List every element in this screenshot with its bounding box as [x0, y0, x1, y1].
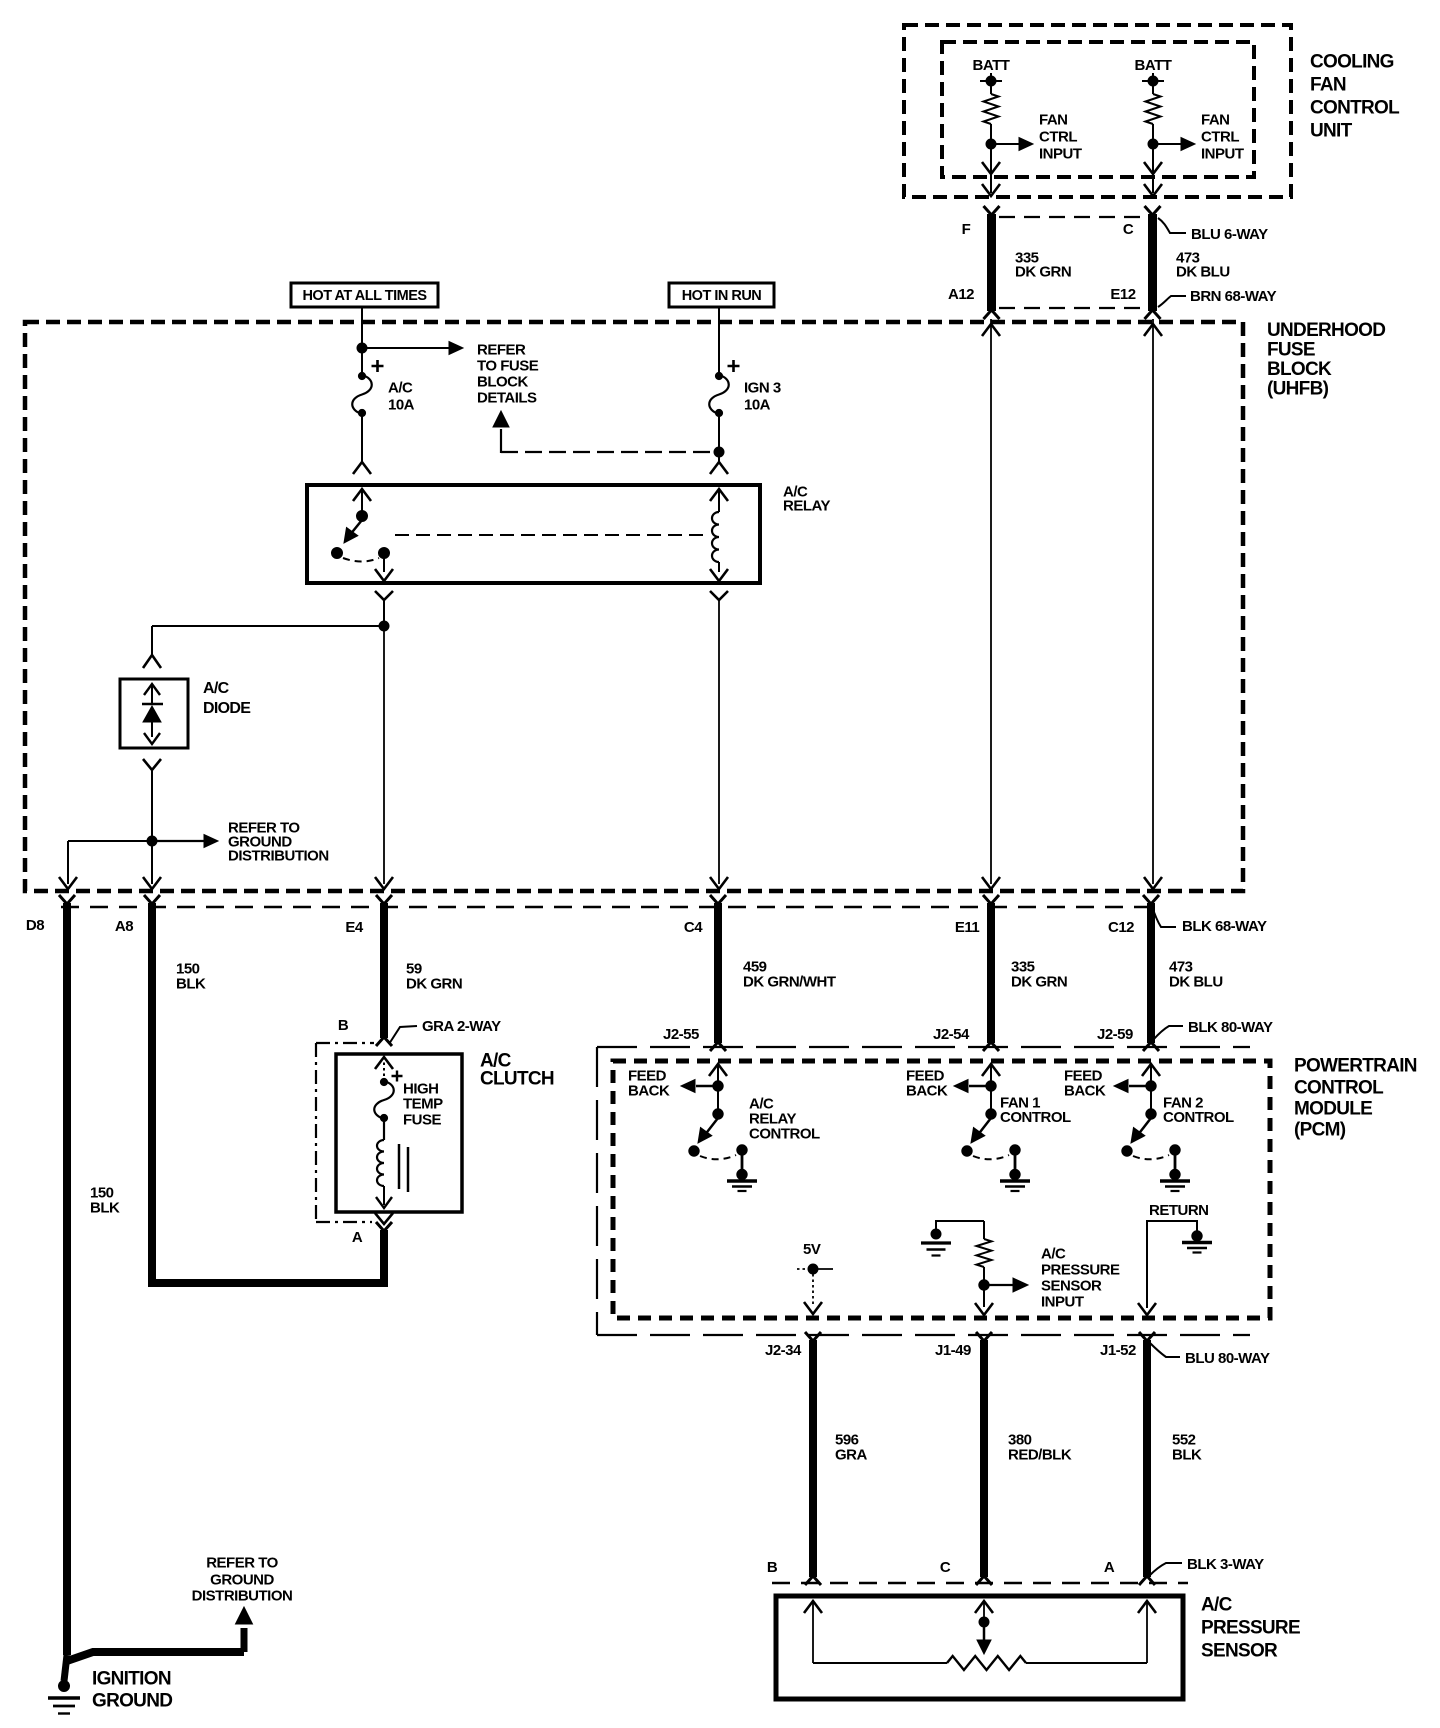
svg-text:C: C [940, 1559, 951, 1576]
wire relay coil out to C4 [718, 600, 720, 884]
5V arrow into J2-34 [804, 1302, 822, 1314]
plus mark high temp fuse [392, 1071, 403, 1082]
fan 1 control switch ground [1010, 1169, 1020, 1179]
A/C relay control switch contact dot right [737, 1145, 747, 1155]
diode output arrow [144, 733, 160, 744]
fan 2 control switch switch wire [1150, 1090, 1152, 1114]
arrowhead pressure input [1013, 1278, 1028, 1292]
svg-text:C4: C4 [684, 919, 703, 936]
connector chevron inner BATT node 1 [982, 162, 1000, 174]
node dot tap BATT node 1 [986, 139, 996, 149]
svg-text:BLK 80-WAY: BLK 80-WAY [1188, 1019, 1273, 1036]
svg-text:BLOCK: BLOCK [1267, 359, 1332, 380]
wire tap down BATT node 1 [990, 149, 992, 193]
svg-text:D8: D8 [26, 917, 44, 934]
cooling fan control unit inner dashed box [942, 42, 1254, 177]
svg-text:DISTRIBUTION: DISTRIBUTION [228, 848, 329, 865]
svg-text:A/C: A/C [388, 380, 413, 397]
wire to refer-ground arrow [157, 840, 205, 842]
fuse A/C 10A [352, 375, 372, 414]
wire D8 elbow to ground arrow [67, 1652, 244, 1661]
wire fuse to relay connector [361, 414, 363, 462]
fan 2 control switch switch common dot [1146, 1109, 1156, 1119]
arrow into C4 [710, 877, 728, 889]
svg-text:RED/BLK: RED/BLK [1008, 1447, 1072, 1464]
fan 1 control switch contact dot left [962, 1146, 972, 1156]
high temp fuse box [336, 1054, 462, 1212]
connector chevron inner BATT node 2 [1144, 162, 1162, 174]
connector below relay (switch out) [375, 591, 393, 600]
svg-text:BLK: BLK [90, 1200, 120, 1217]
fuse IGN 3 10A [709, 375, 729, 414]
svg-text:FUSE: FUSE [1267, 339, 1315, 360]
svg-text:IGNITION: IGNITION [92, 1668, 171, 1689]
wire relay out to junction [383, 600, 385, 631]
svg-text:UNDERHOOD: UNDERHOOD [1267, 320, 1385, 341]
return ground [1192, 1231, 1202, 1241]
wire to refer-to-fuse-block arrow [362, 347, 450, 349]
ignition ground symbol [59, 1681, 70, 1692]
sensor potentiometer R [947, 1656, 1026, 1670]
svg-text:C12: C12 [1108, 919, 1134, 936]
svg-text:REFER: REFER [477, 342, 526, 359]
PCM inner dashed box [613, 1061, 1270, 1318]
5V node dot [808, 1264, 818, 1274]
cooling fan control unit outer dashed box [904, 25, 1291, 197]
wire fuse to relay connector (IGN) [718, 414, 720, 462]
fan 1 control switch contact dot right [1010, 1145, 1020, 1155]
clutch coil L1 [377, 1140, 384, 1186]
A/C diode box [120, 679, 188, 748]
wire pressure input down [983, 1291, 985, 1307]
svg-text:BLK: BLK [1172, 1447, 1202, 1464]
svg-text:E4: E4 [345, 919, 364, 936]
A/C relay control switch switch common dot [713, 1109, 723, 1119]
connector chevron outer BATT node 1 [982, 184, 1000, 196]
svg-text:FUSE: FUSE [403, 1112, 442, 1129]
leader BLK 3-WAY [1149, 1563, 1182, 1576]
svg-text:RETURN: RETURN [1149, 1202, 1209, 1219]
svg-text:DETAILS: DETAILS [477, 390, 537, 407]
clutch input arrow [375, 1057, 393, 1069]
arrowhead fan ctrl input BATT node 2 [1181, 138, 1195, 151]
relay switch contact dot right [379, 548, 390, 559]
svg-text:BLK 68-WAY: BLK 68-WAY [1182, 918, 1267, 935]
connector below relay (coil out) [710, 591, 728, 600]
connector chevron into relay (A/C) [353, 462, 371, 474]
wire hot-in-run to fuse [718, 307, 720, 374]
svg-text:INPUT: INPUT [1039, 146, 1082, 163]
PCM outer boundary [596, 1047, 598, 1335]
A/C relay control switch switch arm arrowhead [698, 1128, 712, 1144]
wire E12 to C12 (through UHFB) [1152, 319, 1154, 884]
svg-text:SENSOR: SENSOR [1201, 1640, 1278, 1661]
relay coil [712, 512, 719, 562]
connector pin F-A12 bar [987, 214, 996, 311]
svg-text:C: C [1123, 221, 1134, 238]
svg-text:PRESSURE: PRESSURE [1041, 1262, 1120, 1279]
connector chevron into relay (IGN) [710, 462, 728, 474]
pin C12/J2-59 wire (473 DK BLU) [1147, 903, 1155, 1043]
svg-text:FAN: FAN [1201, 112, 1230, 129]
svg-text:A/C: A/C [203, 680, 230, 697]
pressure sensor input ground dot [931, 1229, 941, 1239]
relay coil input arrow [710, 489, 728, 501]
relay switch dashed arc [343, 558, 379, 562]
connector dashed bottom edge [999, 307, 1145, 309]
fan 1 control switch feed-back arrowhead [954, 1080, 968, 1093]
pressure sensor input ground [921, 1241, 951, 1244]
return net wire [1147, 1221, 1197, 1308]
svg-text:A12: A12 [948, 286, 974, 303]
entry arrow E11 top [982, 324, 1000, 336]
leader BRN 68-WAY [1158, 296, 1186, 307]
svg-text:GRA: GRA [835, 1447, 868, 1464]
svg-text:(PCM): (PCM) [1294, 1119, 1346, 1140]
5V wire down [812, 1274, 814, 1306]
pin J1-52 wire (552 BLK) [1143, 1340, 1151, 1577]
node dot fuse tap [357, 343, 367, 353]
svg-text:UNIT: UNIT [1310, 120, 1353, 141]
svg-text:A: A [352, 1229, 363, 1246]
relay interior dashed line [395, 534, 706, 536]
wire resistor to tap BATT node 2 [1152, 124, 1154, 149]
arrow into E11 [982, 877, 1000, 889]
svg-text:F: F [962, 221, 971, 238]
sensor connector face dashed line [772, 1582, 1188, 1585]
arrow into A8 [143, 877, 161, 889]
svg-text:A8: A8 [115, 918, 133, 935]
svg-text:BATT: BATT [973, 57, 1010, 74]
pressure input arrow into J1-49 [975, 1303, 993, 1315]
ground distribution arrow stem [241, 1628, 248, 1652]
arrowhead refer to ground [204, 835, 218, 848]
pin D8 wire (150 BLK) [63, 903, 71, 1655]
arrow into C12 [1144, 877, 1162, 889]
pressure sensor input top wire [936, 1221, 984, 1230]
wire A8 vertical [151, 846, 153, 884]
svg-text:HOT AT ALL TIMES: HOT AT ALL TIMES [302, 288, 427, 304]
svg-text:GROUND: GROUND [210, 1572, 274, 1589]
leader BLU 6-WAY [1158, 218, 1186, 233]
wire junction to D8 branch [68, 840, 152, 842]
clutch plates [398, 1144, 401, 1189]
diode bar [142, 703, 163, 705]
diode D1 triangle [143, 706, 161, 722]
svg-text:GRA 2-WAY: GRA 2-WAY [422, 1018, 501, 1035]
svg-text:DK BLU: DK BLU [1176, 264, 1230, 281]
fan 1 control switch switch common dot [986, 1109, 996, 1119]
fan 2 control switch contact dot left [1122, 1146, 1132, 1156]
A/C relay control switch switch arm [704, 1118, 718, 1136]
svg-text:A: A [1104, 1559, 1115, 1576]
wire fan ctrl input arrow BATT node 2 [1153, 143, 1184, 145]
svg-text:RELAY: RELAY [783, 498, 830, 515]
wire junction to diode branch [152, 625, 384, 627]
fan 2 control switch feed-back arrowhead [1114, 1080, 1128, 1093]
wire BATT BATT node 2 [1152, 73, 1154, 94]
svg-text:CTRL: CTRL [1201, 129, 1239, 146]
svg-text:BLU 6-WAY: BLU 6-WAY [1191, 226, 1268, 243]
node ground-dist junction dot [147, 836, 157, 846]
A/C relay control switch ground [737, 1169, 747, 1179]
svg-text:INPUT: INPUT [1041, 1294, 1084, 1311]
HOT IN RUN box [669, 283, 774, 307]
wire fan ctrl input arrow BATT node 1 [991, 143, 1022, 145]
svg-text:BATT: BATT [1135, 57, 1172, 74]
A/C relay control switch feed-back dot [713, 1081, 723, 1091]
svg-text:CONTROL: CONTROL [1294, 1077, 1384, 1098]
clutch coil out wire [383, 1186, 385, 1205]
svg-text:HOT IN RUN: HOT IN RUN [682, 288, 762, 304]
svg-text:CLUTCH: CLUTCH [480, 1068, 554, 1089]
fan 1 control switch ground stem [1014, 1150, 1017, 1173]
wire A12 to E11 (through UHFB) [990, 319, 992, 884]
pressure input arrow wire [989, 1284, 1013, 1286]
wire up-arrow stem fuse details [500, 429, 502, 453]
arrow into E4 [375, 877, 393, 889]
node dot BATT node 1 [986, 76, 996, 86]
arrowhead fan ctrl input BATT node 1 [1019, 138, 1033, 151]
pin E4 wire (59 DK GRN) [380, 903, 388, 1038]
connector pin C-E12 bar [1148, 214, 1157, 311]
plus mark A/C fuse [372, 360, 384, 372]
A/C relay control switch feed-back arrowhead [681, 1080, 695, 1093]
plus mark IGN fuse [728, 360, 740, 372]
svg-text:5V: 5V [803, 1241, 821, 1258]
svg-text:(UHFB): (UHFB) [1267, 378, 1329, 399]
diode input arrow [144, 684, 160, 695]
svg-text:CONTROL: CONTROL [1163, 1109, 1234, 1126]
fan 1 control switch switch arm [977, 1118, 991, 1136]
svg-text:J2-34: J2-34 [765, 1342, 802, 1359]
wire into ignition ground [64, 1655, 67, 1681]
svg-text:INPUT: INPUT [1201, 146, 1244, 163]
A/C relay box [307, 485, 760, 583]
svg-text:E11: E11 [955, 919, 980, 936]
sensor pin A arrow [1138, 1601, 1156, 1613]
connector dashed top edge [999, 216, 1145, 218]
svg-text:A/C: A/C [1201, 1594, 1233, 1615]
leader BLK 68-WAY [1152, 906, 1176, 927]
relay output arrow [375, 569, 393, 581]
relay coil output arrow [710, 569, 728, 581]
fan 2 control switch ground [1170, 1169, 1180, 1179]
wire diode to ground junction [151, 770, 153, 846]
wire D8 branch down [67, 841, 69, 884]
A/C relay control switch feed-back wire [696, 1085, 718, 1087]
svg-text:DK GRN: DK GRN [406, 976, 462, 993]
resistor fan control BATT node 1 [984, 94, 999, 124]
svg-text:A/C: A/C [1041, 1246, 1066, 1263]
svg-text:DIODE: DIODE [203, 700, 251, 717]
connector A flare [376, 1222, 392, 1231]
leader GRA 2-WAY [389, 1026, 417, 1044]
A/C pressure sensor box [776, 1596, 1183, 1699]
wire hot-at-all-times to fuse [361, 307, 363, 374]
relay coil output wire [718, 562, 720, 572]
sensor pin C arrow [975, 1601, 993, 1613]
fan 1 control switch switch wire [990, 1090, 992, 1114]
svg-text:B: B [338, 1017, 349, 1034]
pin E11/J2-54 wire (335 DK GRN) [987, 903, 995, 1043]
svg-text:BACK: BACK [1064, 1083, 1106, 1100]
svg-text:TO FUSE: TO FUSE [477, 358, 539, 375]
svg-text:B: B [767, 1559, 778, 1576]
A/C relay control switch ground stem [741, 1150, 744, 1173]
svg-text:DK GRN: DK GRN [1015, 264, 1071, 281]
HOT AT ALL TIMES box [291, 283, 438, 307]
svg-text:DK GRN: DK GRN [1011, 974, 1067, 991]
relay switch output wire [383, 558, 385, 572]
relay switch arm arrowhead [344, 528, 358, 544]
resistor fan control BATT node 2 [1146, 94, 1161, 124]
sensor resistor bus left [813, 1662, 947, 1664]
svg-text:BLK: BLK [176, 976, 206, 993]
wire resistor to node [983, 1267, 985, 1291]
svg-text:COOLING: COOLING [1310, 51, 1394, 72]
svg-text:POWERTRAIN: POWERTRAIN [1294, 1055, 1417, 1076]
arrow into D8 [59, 877, 77, 889]
fan 2 control switch dashed arc [1133, 1155, 1169, 1159]
svg-text:BLOCK: BLOCK [477, 374, 528, 391]
entry arrow C12 top [1144, 324, 1162, 336]
connector into diode [143, 655, 161, 668]
resistor R pressure input [983, 1221, 985, 1239]
svg-text:DK BLU: DK BLU [1169, 974, 1223, 991]
fuse high temp [374, 1081, 394, 1119]
fan 2 control switch input arrow [1142, 1064, 1160, 1076]
svg-text:TEMP: TEMP [403, 1096, 443, 1113]
A/C clutch dash-dot boundary [315, 1043, 317, 1222]
svg-text:FAN: FAN [1310, 74, 1346, 95]
svg-text:J2-59: J2-59 [1097, 1026, 1133, 1043]
svg-text:SENSOR: SENSOR [1041, 1278, 1102, 1295]
sensor resistor bus right [1026, 1662, 1147, 1664]
relay switch contact dot left [332, 548, 343, 559]
svg-text:PRESSURE: PRESSURE [1201, 1617, 1300, 1638]
arrowhead refer to fuse block [449, 342, 463, 355]
A/C relay control switch input arrow [709, 1064, 727, 1076]
A/C relay control switch dashed arc [700, 1155, 736, 1159]
wire diode branch down [151, 626, 153, 655]
leader BLK 80-WAY [1153, 1026, 1183, 1040]
diode output wire [151, 722, 153, 737]
fan 1 control switch switch arm arrowhead [971, 1128, 985, 1144]
fan 1 control switch dashed arc [973, 1155, 1009, 1159]
relay switch input arrow [353, 489, 371, 501]
fan 2 control switch switch arm [1137, 1118, 1151, 1136]
svg-text:BLK 3-WAY: BLK 3-WAY [1187, 1556, 1264, 1573]
pin J2-34 wire (596 GRA) [809, 1340, 817, 1577]
svg-text:GROUND: GROUND [92, 1690, 172, 1711]
wire BATT BATT node 1 [990, 73, 992, 94]
svg-text:E12: E12 [1110, 286, 1135, 303]
svg-text:BACK: BACK [628, 1083, 670, 1100]
sensor pin B arrow [804, 1601, 822, 1613]
node dot IGN tap [714, 447, 724, 457]
fan 2 control switch contact dot right [1170, 1145, 1180, 1155]
svg-text:BACK: BACK [906, 1083, 948, 1100]
svg-text:BRN 68-WAY: BRN 68-WAY [1190, 288, 1277, 305]
fan 1 control switch feed-back wire [969, 1085, 991, 1087]
wire fuse to clutch coil [383, 1119, 385, 1140]
svg-text:10A: 10A [388, 397, 415, 414]
svg-text:IGN 3: IGN 3 [744, 380, 781, 397]
connector F-A12 bottom flare [984, 310, 1000, 319]
arrowhead to ground distribution [236, 1607, 253, 1624]
svg-text:CONTROL: CONTROL [1000, 1109, 1071, 1126]
fan 1 control switch feed-back dot [986, 1081, 996, 1091]
A/C relay control switch switch wire [717, 1090, 719, 1114]
dashed wire to fuse-details arrow [501, 451, 712, 453]
svg-text:CONTROL: CONTROL [749, 1126, 820, 1143]
5V stub left [797, 1268, 813, 1270]
fan 2 control switch switch arm arrowhead [1131, 1128, 1145, 1144]
svg-text:MODULE: MODULE [1294, 1098, 1372, 1119]
node A junction dot [379, 621, 389, 631]
svg-text:J1-49: J1-49 [935, 1342, 971, 1359]
connector C-E12 top flare [1145, 206, 1161, 215]
sensor wiper dot [979, 1617, 989, 1627]
wire E4 vertical [383, 631, 385, 884]
pin A8 wire (150 BLK) [144, 895, 160, 904]
clutch output arrow [376, 1197, 392, 1208]
svg-text:J2-55: J2-55 [663, 1026, 699, 1043]
sensor wiper arrow [983, 1627, 986, 1640]
svg-text:DISTRIBUTION: DISTRIBUTION [192, 1588, 293, 1605]
connector below diode [143, 759, 161, 770]
pin J1-49 wire (380 RED/BLK) [980, 1340, 988, 1577]
connector C-E12 bottom flare [1145, 310, 1161, 319]
relay switch arm [349, 520, 362, 536]
node dot tap BATT node 2 [1148, 139, 1158, 149]
svg-text:REFER TO: REFER TO [206, 1555, 278, 1572]
svg-text:FAN: FAN [1039, 112, 1068, 129]
fan 2 control switch feed-back dot [1146, 1081, 1156, 1091]
svg-text:J1-52: J1-52 [1100, 1342, 1136, 1359]
node dot pressure input [979, 1280, 989, 1290]
fan 1 control switch input arrow [982, 1064, 1000, 1076]
underhood fuse block dashed box [25, 322, 1243, 891]
arrowhead up to fuse details [493, 411, 509, 427]
svg-text:BLU 80-WAY: BLU 80-WAY [1185, 1350, 1270, 1367]
svg-text:DK GRN/WHT: DK GRN/WHT [743, 974, 836, 991]
return arrow into J1-52 [1138, 1303, 1156, 1315]
fan 2 control switch feed-back wire [1129, 1085, 1151, 1087]
5V stub right [813, 1268, 833, 1270]
leader BLU 80-WAY [1150, 1343, 1180, 1357]
pin C4/J2-55 wire (459 DK GRN/WHT) [714, 903, 722, 1043]
connector F-A12 top flare [984, 206, 1000, 215]
svg-text:J2-54: J2-54 [933, 1026, 970, 1043]
svg-text:CONTROL: CONTROL [1310, 97, 1400, 118]
connector chevron outer BATT node 2 [1144, 184, 1162, 196]
node dot BATT node 2 [1148, 76, 1158, 86]
svg-text:10A: 10A [744, 397, 771, 414]
wire resistor to tap BATT node 1 [990, 124, 992, 149]
relay switch common dot [357, 511, 368, 522]
A/C relay control switch contact dot left [689, 1146, 699, 1156]
wire tap down BATT node 2 [1152, 149, 1154, 193]
connector A below clutch [375, 1213, 393, 1224]
UHFB connector face dashed line [61, 906, 1148, 909]
wire A8 elbow to clutch A [152, 903, 384, 1283]
svg-text:CTRL: CTRL [1039, 129, 1077, 146]
fan 2 control switch ground stem [1174, 1150, 1177, 1173]
